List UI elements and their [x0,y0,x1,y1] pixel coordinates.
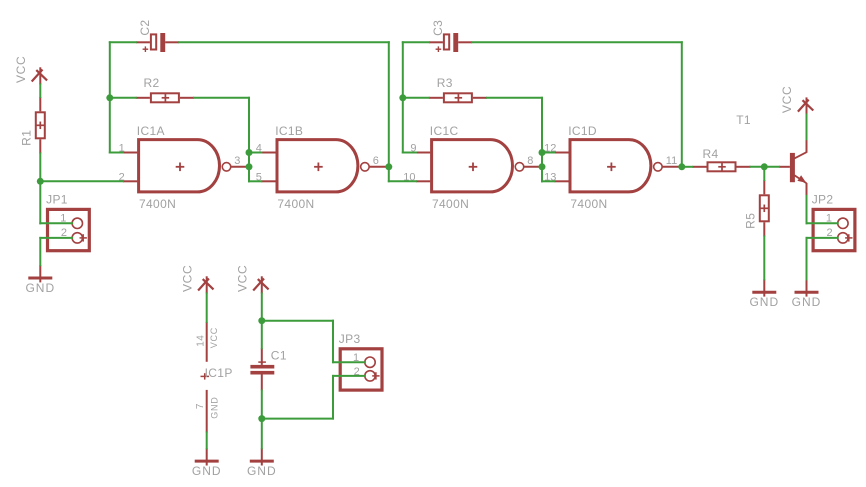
svg-text:GND: GND [192,464,222,478]
svg-text:6: 6 [373,155,379,167]
svg-text:8: 8 [527,155,533,167]
svg-text:VCC: VCC [235,265,249,292]
svg-text:7400N: 7400N [570,197,607,211]
svg-text:IC1C: IC1C [430,124,459,138]
wire node E to C3 left [403,41,429,43]
wire VCC to IC1P pin 14 [206,293,208,321]
wire node G to R4 left [682,166,693,168]
wire VCC to T1 collector [806,115,808,140]
wire T1 emitter to JP2 pin 1 [806,196,808,224]
wire node F vertical [541,98,543,182]
wire node J to JP3 pin 1 [262,320,333,322]
junction node C at pin 3 [246,163,253,170]
nand gate IC1D (7400N) [568,124,662,211]
supply VCC arrow near R1 [14,56,47,85]
IC1C pin 8 output [524,166,542,168]
IC1C pin 9 [416,152,430,154]
wire node A down to JP1 pin 1 [39,181,41,223]
wire node B to R2 left [110,97,136,99]
IC1B pin 4 [261,152,275,154]
IC1B pin 5 [261,180,275,182]
svg-text:IC1A: IC1A [137,124,165,138]
IC1P pin 14 VCC [195,322,219,362]
svg-text:R2: R2 [144,76,160,90]
wire JP2 pin 2 to GND [806,238,808,280]
wire R2 right to node C [194,97,249,99]
wire node B vertical (C2 left / R2 left / IC1A pin 1) [109,42,111,152]
wire node K to GND [261,419,263,449]
junction node E [399,94,406,101]
svg-text:GND: GND [792,295,822,309]
junction node J [258,317,265,324]
svg-text:14: 14 [195,335,206,347]
wire node H down to R5 [763,167,765,180]
supply VCC arrow at IC1P pin 14 [180,265,213,294]
wire node K to JP3 pin 2 [262,418,333,420]
wire to JP3 pin 2 [333,375,365,377]
wire node B to IC1A pin 1 [110,152,123,154]
wire R4 right to node H [750,166,764,168]
wire JP1 pin 2 to GND [39,238,41,265]
svg-text:GND: GND [25,281,55,295]
svg-text:C2: C2 [138,20,152,36]
wire JP1 pin 2 leftward [40,237,72,239]
wire VCC to node J [261,293,263,320]
svg-text:7400N: 7400N [139,197,176,211]
nand gate IC1A (7400N) [137,124,231,211]
svg-text:R4: R4 [703,147,719,161]
junction node F at pin 8 [539,163,546,170]
junction node F at pin 12 [539,149,546,156]
svg-text:3: 3 [234,155,240,167]
supply VCC arrow above C1 [235,265,268,294]
svg-text:7: 7 [195,403,206,409]
svg-text:IC1B: IC1B [275,124,303,138]
wire to JP3 pin 1 [333,361,365,363]
capacitor C1 [250,348,286,390]
ground GND below R5 [749,279,779,309]
wire node C to IC1B pin 4 [249,152,261,154]
nand gate IC1B (7400N) [275,124,369,211]
ground GND below JP1 [25,265,55,295]
wire C2 right to node D [179,41,389,43]
IC1A pin 1 [123,152,137,154]
wire VCC to R1 [39,84,41,97]
wire R5 to GND [763,237,765,280]
svg-text:IC1D: IC1D [568,124,597,138]
wire node E vertical (C3 left / R3 left / IC1C pin 9) [402,42,404,152]
wire node E to R3 left [403,97,429,99]
svg-text:R1: R1 [20,130,34,146]
capacitor C3 [429,20,472,52]
IC1D pin 12 [554,152,568,154]
svg-text:JP2: JP2 [812,193,834,207]
svg-text:VCC: VCC [180,265,194,292]
svg-text:11: 11 [666,155,677,167]
wire JP2 pin 2 leftward [807,237,838,239]
wire node A to IC1A pin 2 [40,180,123,182]
transistor T1 (NPN) [736,113,806,196]
wire C1 bottom to node K [261,390,263,418]
svg-text:GND: GND [247,464,277,478]
IC1D pin 11 output [662,166,682,168]
junction node D at pin 6 [385,163,392,170]
wire node B to C2 left [110,41,136,43]
svg-text:IC1P: IC1P [205,366,233,380]
wire node F to IC1D pin 12 [542,152,554,154]
svg-text:7400N: 7400N [277,197,314,211]
junction node H [761,163,768,170]
junction node B [106,94,113,101]
wire node E to IC1C pin 9 [403,152,416,154]
junction node A [37,178,44,185]
wire node C to IC1B pin 5 [249,180,261,182]
IC1P pin 7 GND [195,390,220,433]
resistor R5 [744,180,769,236]
capacitor C2 [136,20,179,52]
wire C3 right to node G [472,41,682,43]
svg-text:JP1: JP1 [46,193,68,207]
wire node F to IC1D pin 13 [542,180,554,182]
wire node G vertical [681,42,683,167]
resistor R3 [429,76,487,103]
junction node K [258,415,265,422]
svg-text:VCC: VCC [14,56,28,83]
wire R3 right to node F [487,97,542,99]
IC1A pin 2 [123,180,137,182]
wire node J to C1 top [261,321,263,349]
ground GND below IC1P pin 7 [192,448,222,478]
wire R1 to node A [39,153,41,181]
wire up to JP3 pin 2 [332,376,334,419]
ground GND below JP2 [792,279,822,309]
IC1C pin 10 [416,180,430,182]
resistor R2 [136,76,194,103]
supply VCC arrow at T1 collector [780,86,813,115]
svg-text:T1: T1 [736,113,751,127]
wire node H to T1 base [764,166,779,168]
IC1A pin 3 output [231,166,249,168]
svg-text:JP3: JP3 [339,332,361,346]
svg-text:R5: R5 [744,213,758,229]
wire node C vertical [248,98,250,182]
svg-text:VCC: VCC [780,86,794,113]
connector JP3 [339,332,382,390]
wire to JP2 pin 1 [807,222,838,224]
nand gate IC1C (7400N) [430,124,524,211]
svg-text:GND: GND [749,295,779,309]
connector JP1 [46,193,89,251]
svg-text:C3: C3 [431,20,445,36]
connector JP2 [812,193,855,251]
IC1P origin and label [201,366,233,380]
resistor R4 [692,147,750,171]
IC1D pin 13 [554,180,568,182]
junction node C at pin 4 [246,149,253,156]
svg-text:R3: R3 [437,76,453,90]
IC1B pin 6 output [369,166,389,168]
svg-text:VCC: VCC [209,327,219,348]
junction node G at pin 11 [678,163,685,170]
svg-text:C1: C1 [271,348,287,362]
ground GND below C1 [247,448,277,478]
wire down to JP3 pin 1 [332,321,334,363]
svg-text:GND: GND [210,396,220,418]
wire node D vertical [388,42,390,181]
wire node D to IC1B pin 6 [388,166,390,168]
svg-text:7400N: 7400N [432,197,469,211]
resistor R1 [20,97,45,153]
wire IC1P pin 7 to GND [206,433,208,449]
wire to JP1 pin 1 [40,222,72,224]
wire node D to IC1C pin 10 [389,180,416,182]
